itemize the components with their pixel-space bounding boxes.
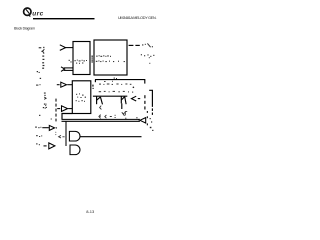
dashed wire (vertical, left of B3) — [55, 99, 57, 122]
buffer A3 with wire — [42, 125, 54, 130]
node label row C — [36, 143, 40, 145]
block B1 (tone generator) — [73, 42, 90, 75]
dashed wire right of B2 — [129, 44, 140, 46]
wire arrow (between Q2 and dashed net) — [131, 96, 140, 101]
gate G1 output wire — [81, 136, 142, 138]
transistor Q1 — [97, 96, 103, 104]
bus end arrow — [140, 118, 146, 123]
node label row A — [35, 127, 41, 129]
bus ticks between B1 and B2 — [92, 56, 93, 63]
dashed net B (corner + vertical) — [149, 90, 152, 115]
label row under rail — [99, 81, 131, 85]
wire from B3 bottom — [62, 114, 72, 120]
svg-text:8-13: 8-13 — [86, 209, 95, 214]
stray dot (left of double bus) — [51, 118, 52, 119]
buffer A1 — [57, 82, 73, 87]
pin label column (left side tiny labels) — [36, 47, 47, 116]
double bus wire — [62, 119, 140, 121]
node rail (upper wire with end ticks) — [95, 80, 145, 84]
transistor Q2 — [121, 96, 126, 109]
input arrow into B1 (top) — [60, 45, 73, 51]
B1 internal label — [69, 60, 87, 64]
dashed net A (vertical) — [144, 95, 146, 109]
Q2 emitter marks — [122, 112, 127, 119]
rail left tick mark — [92, 85, 93, 87]
svg-text:Block Diagram: Block Diagram — [14, 26, 35, 30]
label row 2 (above collector rail) — [99, 91, 134, 93]
gate G1 input marks — [55, 132, 64, 138]
B3 inner dot — [85, 97, 86, 98]
B2 internal label — [96, 55, 125, 62]
collector rail — [93, 95, 127, 97]
Q1 emitter marks — [100, 106, 102, 117]
net B dots — [150, 118, 153, 123]
buffer A4 — [44, 143, 55, 149]
B3 internal label — [76, 93, 85, 101]
gate G2 — [70, 145, 80, 155]
logo mark (circle emblem) — [24, 8, 31, 17]
svg-text:urc: urc — [32, 10, 43, 17]
annotation text (right of B2, line 2) — [141, 54, 155, 64]
label below B2 — [114, 78, 117, 79]
bracket mark (below arrow) — [125, 112, 127, 116]
block B3 (address counter, tall) — [72, 81, 91, 114]
block B2 (ROM / control) — [94, 40, 127, 75]
buffer A2 — [57, 106, 72, 112]
node dot after A3 — [56, 127, 57, 128]
header rule — [33, 18, 95, 19]
svg-text:UM3481A MELODY GEN.: UM3481A MELODY GEN. — [118, 16, 157, 20]
gate G1 — [69, 131, 80, 141]
node label row B — [36, 135, 42, 137]
company name UTC — [32, 10, 43, 17]
junction dot (above Q2 right) — [133, 87, 135, 89]
junction dots (right of G1 output) — [150, 127, 154, 131]
emitter annotation row (below transistors) — [99, 115, 116, 119]
dual input wires into B1 (bottom) — [61, 67, 73, 72]
stray dots (below Q2) — [136, 117, 139, 120]
annotation text (right of B2, line 1) — [142, 43, 153, 47]
dashed net C — [147, 111, 148, 125]
wire into gates (vertical) — [65, 121, 67, 146]
